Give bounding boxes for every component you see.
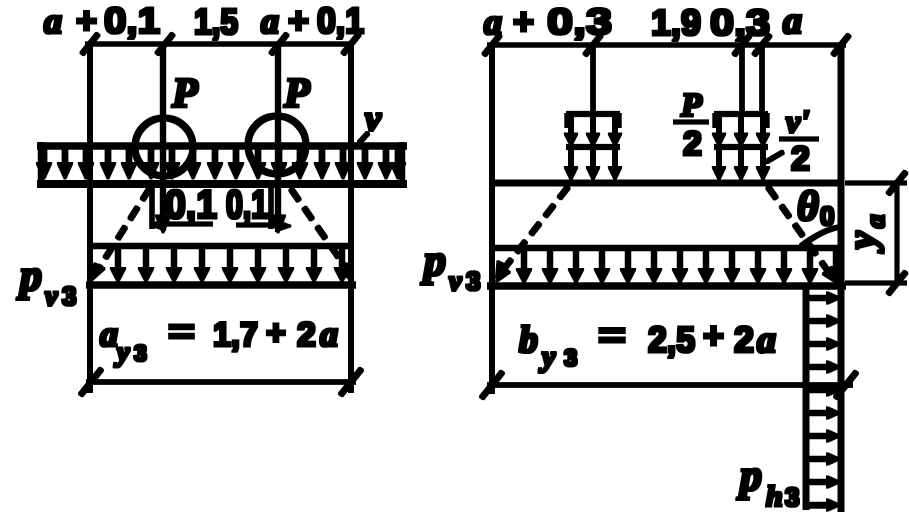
svg-text:=: =	[168, 313, 195, 351]
extension line right edge (right figure)	[839, 45, 844, 511]
svg-text:+: +	[266, 314, 286, 352]
label p_h3	[736, 451, 799, 513]
label 0,1 (right)	[226, 183, 268, 227]
extension line right edge (left figure)	[349, 44, 353, 392]
svg-text:+: +	[703, 315, 724, 356]
track load line right (x=762)	[760, 45, 764, 114]
svg-text:P: P	[171, 71, 198, 117]
track load line left (x=593)	[591, 45, 595, 114]
y_a dimension line	[888, 172, 906, 294]
wheel load line P2	[271, 44, 285, 233]
formula b_y3 = 2,5 + 2a	[519, 314, 776, 373]
svg-text:v: v	[365, 98, 382, 138]
svg-text:3: 3	[785, 482, 799, 512]
svg-text:2: 2	[683, 125, 702, 163]
dimension label a + 0,1 (left span)	[44, 0, 160, 41]
svg-text:2: 2	[734, 319, 754, 360]
arrowhead at left end of right p_v3 band	[496, 261, 508, 278]
svg-text:3: 3	[466, 266, 480, 296]
svg-text:θ: θ	[797, 184, 819, 230]
svg-text:1,5: 1,5	[194, 1, 238, 42]
dimension label a + 0,3	[484, 1, 612, 42]
svg-text:a: a	[757, 319, 776, 361]
svg-text:v: v	[449, 266, 462, 297]
dimension label 0,3	[710, 2, 770, 43]
svg-text:y: y	[114, 337, 130, 368]
dimension label a (right)	[783, 0, 802, 42]
label P/2	[674, 87, 708, 163]
wall pressure band p_h3	[806, 288, 840, 511]
label p_v3 (right)	[420, 236, 480, 297]
svg-text:a: a	[261, 1, 279, 41]
svg-text:v': v'	[786, 103, 809, 139]
svg-text:0,1: 0,1	[226, 183, 268, 227]
dashed spread line left (right figure)	[496, 187, 568, 282]
dashed spread line right (right figure)	[768, 187, 837, 283]
pressure band p_v3 (left figure)	[87, 246, 355, 285]
svg-text:2: 2	[297, 316, 316, 354]
svg-text:p: p	[420, 236, 446, 285]
track load block right (v'/2)	[713, 114, 770, 180]
svg-text:+: +	[513, 1, 534, 42]
label P (right wheel)	[283, 71, 310, 117]
svg-text:0,3: 0,3	[547, 1, 612, 42]
bottom dimension line (right figure)	[482, 372, 857, 398]
svg-text:3: 3	[134, 340, 147, 366]
svg-text:+: +	[288, 0, 309, 41]
svg-text:0: 0	[820, 201, 834, 231]
svg-text:a: a	[484, 2, 502, 42]
svg-text:a: a	[320, 314, 338, 354]
label y_a (rotated)	[839, 215, 890, 254]
0,1 offset tick right	[269, 186, 273, 228]
top dimension line (left figure)	[82, 34, 359, 54]
dimension label a + 0,1 (right span)	[261, 0, 364, 41]
extension line left edge (right figure)	[490, 45, 494, 393]
pressure band p_v3 (right figure)	[488, 248, 845, 286]
svg-text:2: 2	[791, 140, 810, 178]
extension line left edge (left figure)	[88, 44, 92, 392]
svg-text:y: y	[839, 231, 884, 253]
svg-text:p: p	[736, 451, 762, 500]
wheel circle 2	[248, 116, 306, 174]
0,1 dimension arrow left	[150, 220, 212, 230]
svg-text:0,1: 0,1	[165, 183, 217, 227]
svg-text:a: a	[860, 215, 890, 229]
top dimension line (right figure)	[484, 35, 849, 55]
label 0,1 (left)	[165, 183, 217, 227]
svg-text:0,1: 0,1	[317, 0, 364, 41]
label theta0	[797, 184, 834, 231]
svg-text:P: P	[283, 71, 310, 117]
dimension label 1,9	[651, 2, 701, 43]
label p_v3 (left)	[16, 251, 76, 312]
svg-text:b: b	[519, 319, 538, 361]
dashed spread line left (left figure)	[92, 188, 150, 280]
angle arc theta0	[801, 227, 840, 246]
bottom dimension line (left figure)	[81, 369, 362, 395]
wheel load line P1	[156, 44, 170, 233]
svg-text:a: a	[100, 314, 118, 354]
svg-text:0,3: 0,3	[710, 2, 770, 43]
label v with leader	[359, 98, 382, 143]
y_a dimension extension top	[846, 181, 906, 184]
dimension label 1,5	[194, 1, 238, 42]
label P (left wheel)	[171, 71, 198, 117]
svg-text:1,7: 1,7	[213, 316, 258, 354]
svg-text:+: +	[76, 0, 97, 41]
0,1 dimension arrow right	[237, 221, 291, 231]
surface line (right figure)	[490, 181, 843, 186]
wheel circle 1	[135, 118, 193, 176]
svg-text:0,1: 0,1	[104, 0, 160, 41]
svg-text:h: h	[766, 480, 783, 513]
svg-text:p: p	[16, 251, 42, 300]
svg-text:P: P	[680, 87, 702, 124]
svg-text:3: 3	[62, 281, 76, 311]
svg-text:a: a	[783, 0, 802, 42]
svg-text:=: =	[598, 314, 626, 355]
formula a_y3 = 1,7 + 2a	[100, 313, 338, 368]
svg-text:1,9: 1,9	[651, 2, 701, 43]
svg-text:y: y	[539, 340, 556, 373]
dashed spread line right (left figure)	[291, 189, 351, 280]
svg-text:3: 3	[564, 345, 577, 372]
track load line mid (x=742)	[740, 45, 744, 114]
svg-text:2,5: 2,5	[648, 319, 695, 360]
label v'/2 with leader	[766, 103, 818, 178]
svg-text:a: a	[44, 1, 62, 41]
roadway strip with distributed load v	[37, 143, 406, 187]
svg-text:v: v	[45, 281, 58, 312]
y_a dimension extension bottom	[846, 281, 906, 284]
track load block left (P/2)	[565, 114, 622, 180]
0,1 offset tick left	[150, 183, 154, 228]
